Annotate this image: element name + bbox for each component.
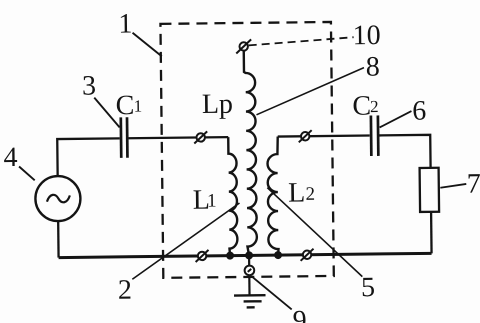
resistor 7 (load) bbox=[420, 168, 439, 212]
svg-text:L: L bbox=[288, 177, 305, 208]
wire top-left rail and corner bbox=[57, 138, 120, 177]
coil L2 bbox=[267, 137, 279, 256]
svg-text:1: 1 bbox=[134, 97, 143, 116]
feedthrough symbol top-right wire bbox=[299, 130, 312, 142]
feedthrough symbol top-left wire bbox=[194, 131, 207, 143]
svg-text:2: 2 bbox=[370, 97, 379, 116]
leader line for label 2 bbox=[131, 203, 240, 279]
junction dot right (L2 to bottom wire) bbox=[274, 251, 282, 259]
leader line for label 6 bbox=[379, 111, 411, 127]
svg-text:8: 8 bbox=[366, 52, 380, 83]
svg-text:C: C bbox=[115, 90, 134, 121]
capacitor C1 bbox=[121, 117, 128, 158]
bottom wire bbox=[59, 253, 432, 257]
coil Lp bbox=[244, 50, 257, 255]
wire L2 top to C2 bbox=[278, 136, 370, 137]
ground symbol bbox=[234, 295, 266, 307]
svg-text:4: 4 bbox=[3, 142, 17, 173]
screen box (element 1) dashed rectangle bbox=[160, 22, 333, 278]
wire C1 to L1 top bbox=[129, 137, 229, 138]
leader line for label 8 bbox=[256, 68, 365, 115]
leader line for label 5 bbox=[267, 187, 362, 278]
terminal 10 (antenna lead-in) bbox=[236, 39, 251, 53]
junction dot left (L1 to bottom wire) bbox=[226, 252, 234, 260]
svg-text:9: 9 bbox=[293, 305, 307, 323]
AC source (element 4) bbox=[35, 176, 81, 222]
svg-text:5: 5 bbox=[361, 272, 375, 303]
svg-text:2: 2 bbox=[118, 275, 132, 306]
capacitor C2 bbox=[371, 115, 378, 156]
svg-text:7: 7 bbox=[467, 168, 480, 199]
wire terminal 9 to ground bbox=[248, 275, 250, 295]
wire resistor bottom to bottom rail bbox=[430, 212, 433, 253]
leader line for label 7 bbox=[440, 184, 466, 188]
svg-text:C: C bbox=[352, 91, 371, 122]
wire C2 to right rail down to resistor bbox=[379, 135, 430, 169]
wire middle dot to ground terminal bbox=[248, 255, 250, 265]
leader line for label 3 bbox=[94, 97, 119, 127]
feedthrough symbol bottom-left wire bbox=[196, 250, 209, 262]
leader line for label 1 bbox=[133, 32, 162, 56]
wire source bottom to bottom rail bbox=[57, 222, 60, 258]
svg-text:1: 1 bbox=[118, 9, 132, 40]
svg-text:Lp: Lp bbox=[202, 89, 233, 120]
feedthrough symbol bottom-right wire bbox=[301, 249, 314, 261]
svg-text:10: 10 bbox=[353, 20, 381, 51]
leader line for label 10 (dashed) bbox=[249, 37, 354, 45]
junction dot middle (Lp to bottom wire) bbox=[245, 251, 253, 259]
leader line for label 9 bbox=[253, 277, 292, 310]
svg-text:6: 6 bbox=[412, 95, 426, 126]
leader line for label 4 bbox=[19, 166, 35, 180]
svg-text:1: 1 bbox=[207, 191, 217, 212]
svg-text:3: 3 bbox=[82, 71, 96, 102]
terminal 9 (ground lead) bbox=[245, 266, 255, 276]
coil L1 bbox=[228, 137, 237, 256]
svg-text:2: 2 bbox=[305, 184, 315, 205]
